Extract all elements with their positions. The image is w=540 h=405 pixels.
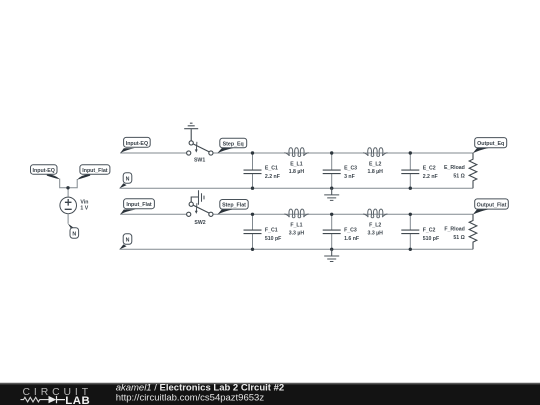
flag node Output_Flat — [473, 199, 509, 215]
footer bar — [0, 382, 540, 384]
node junction at source top — [66, 186, 69, 189]
svg-text:F_C1: F_C1 — [265, 228, 278, 234]
wire row1 left segment — [120, 152, 186, 154]
svg-text:51 Ω: 51 Ω — [453, 174, 464, 180]
ground row2 — [324, 249, 339, 261]
svg-text:3.3 µH: 3.3 µH — [368, 231, 384, 237]
svg-text:N: N — [72, 232, 76, 238]
svg-text:510 pF: 510 pF — [423, 236, 439, 242]
svg-text:1.8 µH: 1.8 µH — [368, 169, 384, 175]
svg-text:http://circuitlab.com/cs54pazt: http://circuitlab.com/cs54pazt9653z — [116, 392, 265, 403]
svg-text:F_C3: F_C3 — [344, 228, 357, 234]
svg-text:Input_Flat: Input_Flat — [126, 202, 152, 208]
flag node Output_Eq — [473, 138, 507, 154]
junction dots F_C3 — [330, 213, 333, 216]
wire row2 N bottom rail — [120, 248, 474, 250]
svg-text:2.2 nF: 2.2 nF — [423, 174, 438, 180]
voltage source V1 Vin — [60, 197, 77, 214]
capacitor F_C3 — [323, 214, 341, 249]
junction dots F_C2 — [409, 213, 412, 216]
flag node Input_Flat (source right) — [77, 165, 110, 180]
capacitor F_C2 — [401, 214, 419, 249]
switch SW1 — [187, 129, 213, 155]
svg-text:SW1: SW1 — [194, 158, 205, 164]
capacitor E_C1 — [244, 153, 262, 188]
junction dots E_C2 — [409, 151, 412, 154]
svg-text:E_Rload: E_Rload — [444, 165, 465, 171]
ground (rotated right) above SW2 — [199, 190, 205, 205]
logo resistor zigzag — [21, 397, 49, 402]
svg-text:N: N — [126, 238, 130, 244]
svg-text:Step_Eq: Step_Eq — [223, 141, 244, 147]
wire row2 left segment — [120, 213, 186, 215]
flag node N (below source) — [68, 224, 79, 239]
svg-text:LAB: LAB — [65, 395, 90, 405]
flag node Step_Eq — [217, 138, 246, 153]
svg-text:Input-EQ: Input-EQ — [33, 168, 55, 174]
svg-text:E_C1: E_C1 — [265, 166, 278, 172]
svg-text:E_C3: E_C3 — [344, 166, 357, 172]
inductor E_L2 — [363, 148, 387, 157]
svg-text:1.6 nF: 1.6 nF — [344, 236, 359, 242]
svg-text:2.2 nF: 2.2 nF — [265, 174, 280, 180]
junction dots E_C3 — [330, 151, 333, 154]
svg-text:F_L2: F_L2 — [369, 223, 381, 229]
wire source top tee — [60, 179, 77, 198]
svg-text:3.3 µH: 3.3 µH — [289, 231, 305, 237]
svg-text:3 nF: 3 nF — [344, 174, 355, 180]
capacitor F_C1 — [244, 214, 262, 249]
wire row2 main segment — [213, 213, 473, 215]
inductor F_L2 — [363, 209, 387, 218]
resistor F_Rload — [469, 214, 477, 249]
logo diode — [49, 396, 57, 403]
ground row1 — [324, 188, 339, 200]
flag node N (row1 rail) — [120, 173, 132, 189]
inductor E_L1 — [284, 148, 308, 157]
svg-text:F_Rload: F_Rload — [444, 227, 464, 233]
flag node Step_Flat — [217, 200, 248, 215]
svg-text:Input-EQ: Input-EQ — [126, 141, 148, 147]
svg-text:Input_Flat: Input_Flat — [82, 168, 108, 174]
svg-text:Output_Flat: Output_Flat — [477, 203, 507, 209]
ground (flipped) above SW1 — [184, 123, 198, 129]
svg-text:E_L1: E_L1 — [290, 161, 303, 167]
svg-text:Output_Eq: Output_Eq — [477, 141, 504, 147]
svg-text:SW2: SW2 — [194, 220, 205, 226]
svg-text:Step_Flat: Step_Flat — [222, 203, 246, 209]
junction dots E_C1 — [251, 151, 254, 154]
resistor E_Rload — [469, 153, 477, 188]
flag node Input_Flat (row2) — [120, 199, 154, 215]
svg-text:E_C2: E_C2 — [423, 166, 436, 172]
flag node Input-EQ (row1) — [120, 137, 150, 153]
capacitor E_C3 — [323, 153, 341, 188]
svg-text:E_L2: E_L2 — [369, 161, 382, 167]
svg-text:1 V: 1 V — [80, 205, 88, 211]
svg-text:N: N — [126, 177, 130, 183]
svg-text:F_L1: F_L1 — [290, 223, 302, 229]
svg-text:1.8 µH: 1.8 µH — [289, 169, 305, 175]
svg-text:51 Ω: 51 Ω — [453, 235, 464, 241]
junction dots F_C1 — [251, 213, 254, 216]
flag node N (row2 rail) — [120, 234, 132, 250]
wire source bottom — [67, 214, 69, 224]
flag node Input-EQ (source left) — [31, 165, 60, 180]
wire row1 N bottom rail — [120, 187, 474, 189]
inductor F_L1 — [284, 209, 308, 218]
svg-text:F_C2: F_C2 — [423, 228, 436, 234]
switch SW2 — [187, 197, 213, 216]
capacitor E_C2 — [401, 153, 419, 188]
wire row1 main segment — [213, 152, 473, 154]
svg-text:Vin: Vin — [80, 199, 88, 205]
svg-text:510 pF: 510 pF — [265, 236, 281, 242]
